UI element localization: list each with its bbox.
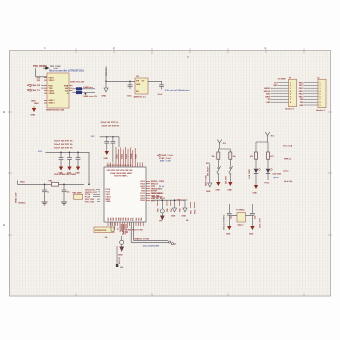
LED D2 xyxy=(267,159,269,168)
resistor R2 xyxy=(229,152,232,159)
photo grain overlay xyxy=(10,51,331,297)
bend wires into label box xyxy=(113,222,116,230)
schematic sheet xyxy=(10,51,331,297)
hollow arrow stub 1 xyxy=(171,199,177,217)
capacitor C4 with ground xyxy=(42,184,51,205)
right pin net labels xyxy=(151,181,166,202)
header J1 xyxy=(264,78,297,111)
power flag VCC (buttons) xyxy=(217,140,221,147)
junction dots xyxy=(60,152,62,154)
resistor R3 xyxy=(255,152,258,159)
right side wires xyxy=(73,89,96,93)
small stubs with rotated text xyxy=(158,200,195,208)
comb rail xyxy=(152,199,176,201)
navy box R termination 2 xyxy=(76,91,82,94)
capacitor C11 xyxy=(112,137,114,141)
wire from label into IC xyxy=(36,68,47,77)
capacitor C1 with ground xyxy=(58,152,63,174)
input triangle xyxy=(45,66,49,70)
ferrite bead FB1 xyxy=(52,182,59,186)
button SW1 xyxy=(216,159,221,191)
main wire xyxy=(18,181,85,185)
hollow arrow stub 2 xyxy=(176,200,187,217)
IC right pin names xyxy=(64,85,69,92)
inside right pin names xyxy=(140,180,145,202)
capacitor C5 with ground xyxy=(61,184,71,205)
capacitor C8 xyxy=(227,213,232,215)
IC U3 (CAN transceiver) body xyxy=(47,73,69,108)
header J2 xyxy=(299,78,326,112)
side wires xyxy=(229,204,252,215)
ground at regulator input xyxy=(105,81,107,88)
navy box R termination 1 xyxy=(76,87,82,90)
output wire xyxy=(148,81,162,84)
inside left pin names xyxy=(106,188,112,203)
long vertical wire xyxy=(116,246,118,266)
right pins xyxy=(146,181,150,200)
zone labels xyxy=(3,46,266,227)
MCU left pin net labels xyxy=(85,189,98,203)
left net flags xyxy=(27,84,44,92)
capacitor C7 (regulator input) xyxy=(129,81,131,84)
yellow net label box bottom-left xyxy=(94,227,114,233)
inside top pin names xyxy=(107,170,134,177)
values text block xyxy=(54,141,73,150)
LED D1 xyxy=(255,159,257,168)
capacitor C9 xyxy=(250,213,255,215)
usart wires to the right xyxy=(131,222,169,242)
border zone ticks top xyxy=(8,48,332,296)
testpoint circle + gnd below MCU xyxy=(120,240,124,244)
resistor R1 xyxy=(217,152,220,159)
IC left pin names xyxy=(49,77,56,104)
capacitor C3 with ground xyxy=(75,152,80,174)
button SW2 xyxy=(228,159,233,191)
inside bottom pin names (rotated) xyxy=(108,217,143,220)
input wire xyxy=(106,68,135,81)
resistor R4 xyxy=(267,152,270,159)
power rail wire xyxy=(46,152,90,184)
ground (red) below IC U3 xyxy=(33,106,35,108)
capacitor C10 with ground xyxy=(106,137,108,141)
capacitor C6 (regulator output) xyxy=(159,85,164,87)
power flag VCC (LEDs) xyxy=(265,132,269,139)
testpoint TP1 xyxy=(160,199,165,220)
capacitor C2 with ground xyxy=(67,152,72,174)
crystal Y1 xyxy=(237,213,246,223)
dark text rows left of boxes xyxy=(67,84,69,95)
bottom pins xyxy=(108,222,143,232)
yellow mini box FB2 xyxy=(74,194,83,199)
regulator U2 body xyxy=(135,78,148,94)
MCU body xyxy=(104,167,146,222)
split wire xyxy=(218,146,230,152)
top pin bundle with rotated labels xyxy=(108,147,143,167)
IC left pins xyxy=(44,78,73,103)
